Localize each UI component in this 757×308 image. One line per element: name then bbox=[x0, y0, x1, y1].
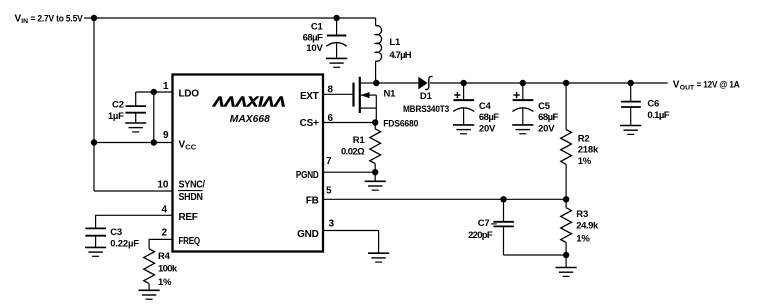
svg-text:MAX668: MAX668 bbox=[230, 113, 270, 125]
label R4 value bbox=[158, 251, 178, 288]
svg-text:20V: 20V bbox=[479, 124, 496, 135]
svg-text:EXT: EXT bbox=[300, 91, 319, 102]
label R3 value bbox=[576, 209, 599, 245]
svg-text:7: 7 bbox=[326, 156, 332, 167]
wire VIN vertical bbox=[93, 18, 95, 191]
svg-text:0.1µF: 0.1µF bbox=[647, 110, 669, 121]
capacitor C7 bbox=[493, 199, 514, 255]
svg-text:68µF: 68µF bbox=[303, 32, 323, 43]
svg-text:220pF: 220pF bbox=[468, 230, 493, 241]
pin name VCC bbox=[179, 140, 197, 152]
svg-text:4: 4 bbox=[161, 205, 167, 216]
capacitor C4 bbox=[453, 83, 474, 125]
capacitor C2 bbox=[125, 92, 146, 123]
label C1 value bbox=[303, 21, 324, 54]
node LDO junction bbox=[151, 89, 157, 95]
wire LDO to VCC vertical bbox=[153, 92, 155, 143]
ground GND pin bbox=[368, 253, 389, 262]
ground R4 bbox=[139, 290, 160, 299]
svg-text:4.7µH: 4.7µH bbox=[389, 50, 411, 61]
net label VIN bbox=[15, 13, 84, 25]
svg-text:FB: FB bbox=[306, 196, 319, 207]
wire N1 drain to D1 anode bbox=[376, 82, 418, 84]
svg-text:R2: R2 bbox=[578, 133, 590, 144]
svg-text:1: 1 bbox=[163, 81, 169, 92]
svg-text:SYNC/: SYNC/ bbox=[179, 179, 206, 190]
svg-text:ΛΛΛXIΛΛ: ΛΛΛXIΛΛ bbox=[212, 94, 286, 110]
svg-text:IN: IN bbox=[21, 18, 28, 25]
label R2 value bbox=[578, 133, 599, 167]
svg-text:1%: 1% bbox=[578, 156, 592, 167]
net label VOUT bbox=[673, 80, 740, 92]
svg-text:2: 2 bbox=[161, 228, 167, 239]
svg-text:C4: C4 bbox=[479, 101, 492, 112]
wire PGND pin 7 bbox=[323, 171, 375, 173]
svg-text:9: 9 bbox=[163, 130, 169, 141]
wire top rail VIN to L1 bbox=[94, 17, 376, 19]
resistor R2 bbox=[561, 83, 572, 199]
svg-text:FREQ: FREQ bbox=[179, 236, 201, 247]
IC U1 MAX668 body bbox=[173, 75, 324, 252]
node C1 junction bbox=[333, 15, 339, 21]
svg-text:10V: 10V bbox=[306, 43, 323, 54]
ground PGND bbox=[365, 172, 386, 190]
ground C1 bbox=[326, 58, 347, 67]
node PGND junction bbox=[372, 169, 378, 175]
ground C5 bbox=[512, 125, 533, 134]
svg-text:CC: CC bbox=[185, 143, 196, 152]
svg-text:100k: 100k bbox=[158, 264, 178, 275]
label L1 value bbox=[389, 37, 411, 61]
svg-text:L1: L1 bbox=[389, 37, 401, 48]
svg-text:C2: C2 bbox=[112, 100, 124, 111]
svg-text:N1: N1 bbox=[384, 89, 397, 100]
svg-text:68µF: 68µF bbox=[538, 112, 558, 123]
label C7 leader bbox=[491, 223, 497, 225]
wire CS+ pin 6 bbox=[323, 122, 375, 124]
svg-text:C1: C1 bbox=[311, 21, 324, 32]
ground C3 bbox=[85, 247, 106, 256]
svg-text:R4: R4 bbox=[158, 251, 171, 262]
label C4 value bbox=[479, 101, 499, 135]
svg-text:C6: C6 bbox=[647, 98, 659, 109]
svg-text:REF: REF bbox=[179, 212, 198, 223]
svg-text:PGND: PGND bbox=[296, 170, 319, 181]
svg-text:3: 3 bbox=[329, 218, 335, 229]
node C6 junction bbox=[628, 80, 634, 86]
svg-text:GND: GND bbox=[297, 229, 318, 240]
svg-text:5: 5 bbox=[326, 186, 332, 197]
svg-text:68µF: 68µF bbox=[479, 112, 499, 123]
ground C4 bbox=[453, 125, 474, 134]
svg-text:218k: 218k bbox=[578, 145, 599, 156]
wire REF pin 4 bbox=[96, 215, 172, 228]
svg-text:FDS6680: FDS6680 bbox=[383, 118, 418, 129]
capacitor C5 bbox=[512, 83, 533, 125]
wire FB pin 5 bbox=[323, 198, 566, 200]
wire LDO pin 1 bbox=[136, 91, 172, 93]
svg-text:C7: C7 bbox=[478, 218, 490, 229]
svg-text:R3: R3 bbox=[576, 209, 588, 220]
transistor N1 bbox=[354, 77, 377, 123]
svg-text:0.22µF: 0.22µF bbox=[110, 238, 139, 249]
wire VCC pin 9 bbox=[94, 142, 172, 144]
node C4 junction bbox=[460, 80, 466, 86]
node VIN top junction bbox=[91, 15, 97, 21]
capacitor C6 bbox=[621, 83, 641, 126]
resistor R1 bbox=[370, 123, 381, 173]
wire SYNC/SHDN pin 10 bbox=[94, 190, 172, 192]
node C5 junction bbox=[520, 80, 526, 86]
ground C2 bbox=[125, 123, 146, 132]
ground R3 bbox=[556, 255, 577, 276]
svg-text:C5: C5 bbox=[538, 101, 551, 112]
svg-text:V: V bbox=[673, 80, 680, 91]
node N1 drain junction bbox=[373, 80, 379, 86]
ground C6 bbox=[620, 126, 641, 135]
wire GND pin 3 bbox=[323, 231, 379, 254]
resistor R4 bbox=[144, 249, 155, 290]
node VCC-C2 junction bbox=[151, 139, 157, 145]
label C2 value bbox=[108, 100, 124, 122]
svg-text:24.9k: 24.9k bbox=[576, 221, 599, 232]
wire FREQ pin 2 bbox=[149, 239, 172, 248]
svg-text:1µF: 1µF bbox=[108, 111, 124, 122]
node R3 bottom junction bbox=[563, 252, 569, 258]
pin name SYNC/SHDN bbox=[179, 179, 206, 203]
node CS+ junction bbox=[372, 119, 378, 125]
svg-text:1%: 1% bbox=[158, 277, 172, 288]
svg-text:= 12V @ 1A: = 12V @ 1A bbox=[697, 80, 740, 91]
label C3 value bbox=[110, 227, 139, 249]
svg-text:SHDN: SHDN bbox=[179, 192, 203, 203]
diode D1 (Schottky) bbox=[418, 76, 432, 89]
svg-text:R1: R1 bbox=[353, 135, 366, 146]
svg-text:LDO: LDO bbox=[179, 89, 200, 100]
overline SHDN bbox=[178, 190, 202, 192]
svg-text:OUT: OUT bbox=[680, 85, 695, 92]
label C6 value bbox=[647, 98, 669, 121]
label R1 value bbox=[341, 135, 365, 158]
svg-text:10: 10 bbox=[157, 180, 169, 191]
wire D1 cathode to VOUT bbox=[430, 82, 668, 84]
svg-text:1%: 1% bbox=[576, 233, 590, 244]
svg-text:= 2.7V to 5.5V: = 2.7V to 5.5V bbox=[31, 13, 84, 24]
capacitor C1 bbox=[326, 18, 347, 58]
svg-text:C3: C3 bbox=[110, 227, 122, 238]
wire VIN lead bbox=[84, 17, 94, 19]
label C7 value bbox=[468, 218, 493, 241]
svg-text:MBRS340T3: MBRS340T3 bbox=[403, 104, 449, 115]
inductor L1 bbox=[376, 18, 382, 83]
wire EXT pin 8 to gate bbox=[323, 93, 353, 95]
resistor R3 bbox=[561, 199, 572, 255]
svg-text:0.02Ω: 0.02Ω bbox=[341, 147, 365, 158]
capacitor C3 bbox=[85, 228, 106, 247]
label C5 value bbox=[538, 101, 558, 135]
svg-text:D1: D1 bbox=[420, 91, 433, 102]
node R2 top junction bbox=[563, 80, 569, 86]
node FB-R2R3 junction bbox=[563, 196, 569, 202]
node VCC junction on VIN line bbox=[91, 139, 97, 145]
node FB-C7 junction bbox=[500, 196, 506, 202]
svg-text:20V: 20V bbox=[538, 124, 555, 135]
wire C7 bottom to R3 bottom bbox=[504, 254, 567, 256]
svg-text:CS+: CS+ bbox=[300, 118, 319, 129]
